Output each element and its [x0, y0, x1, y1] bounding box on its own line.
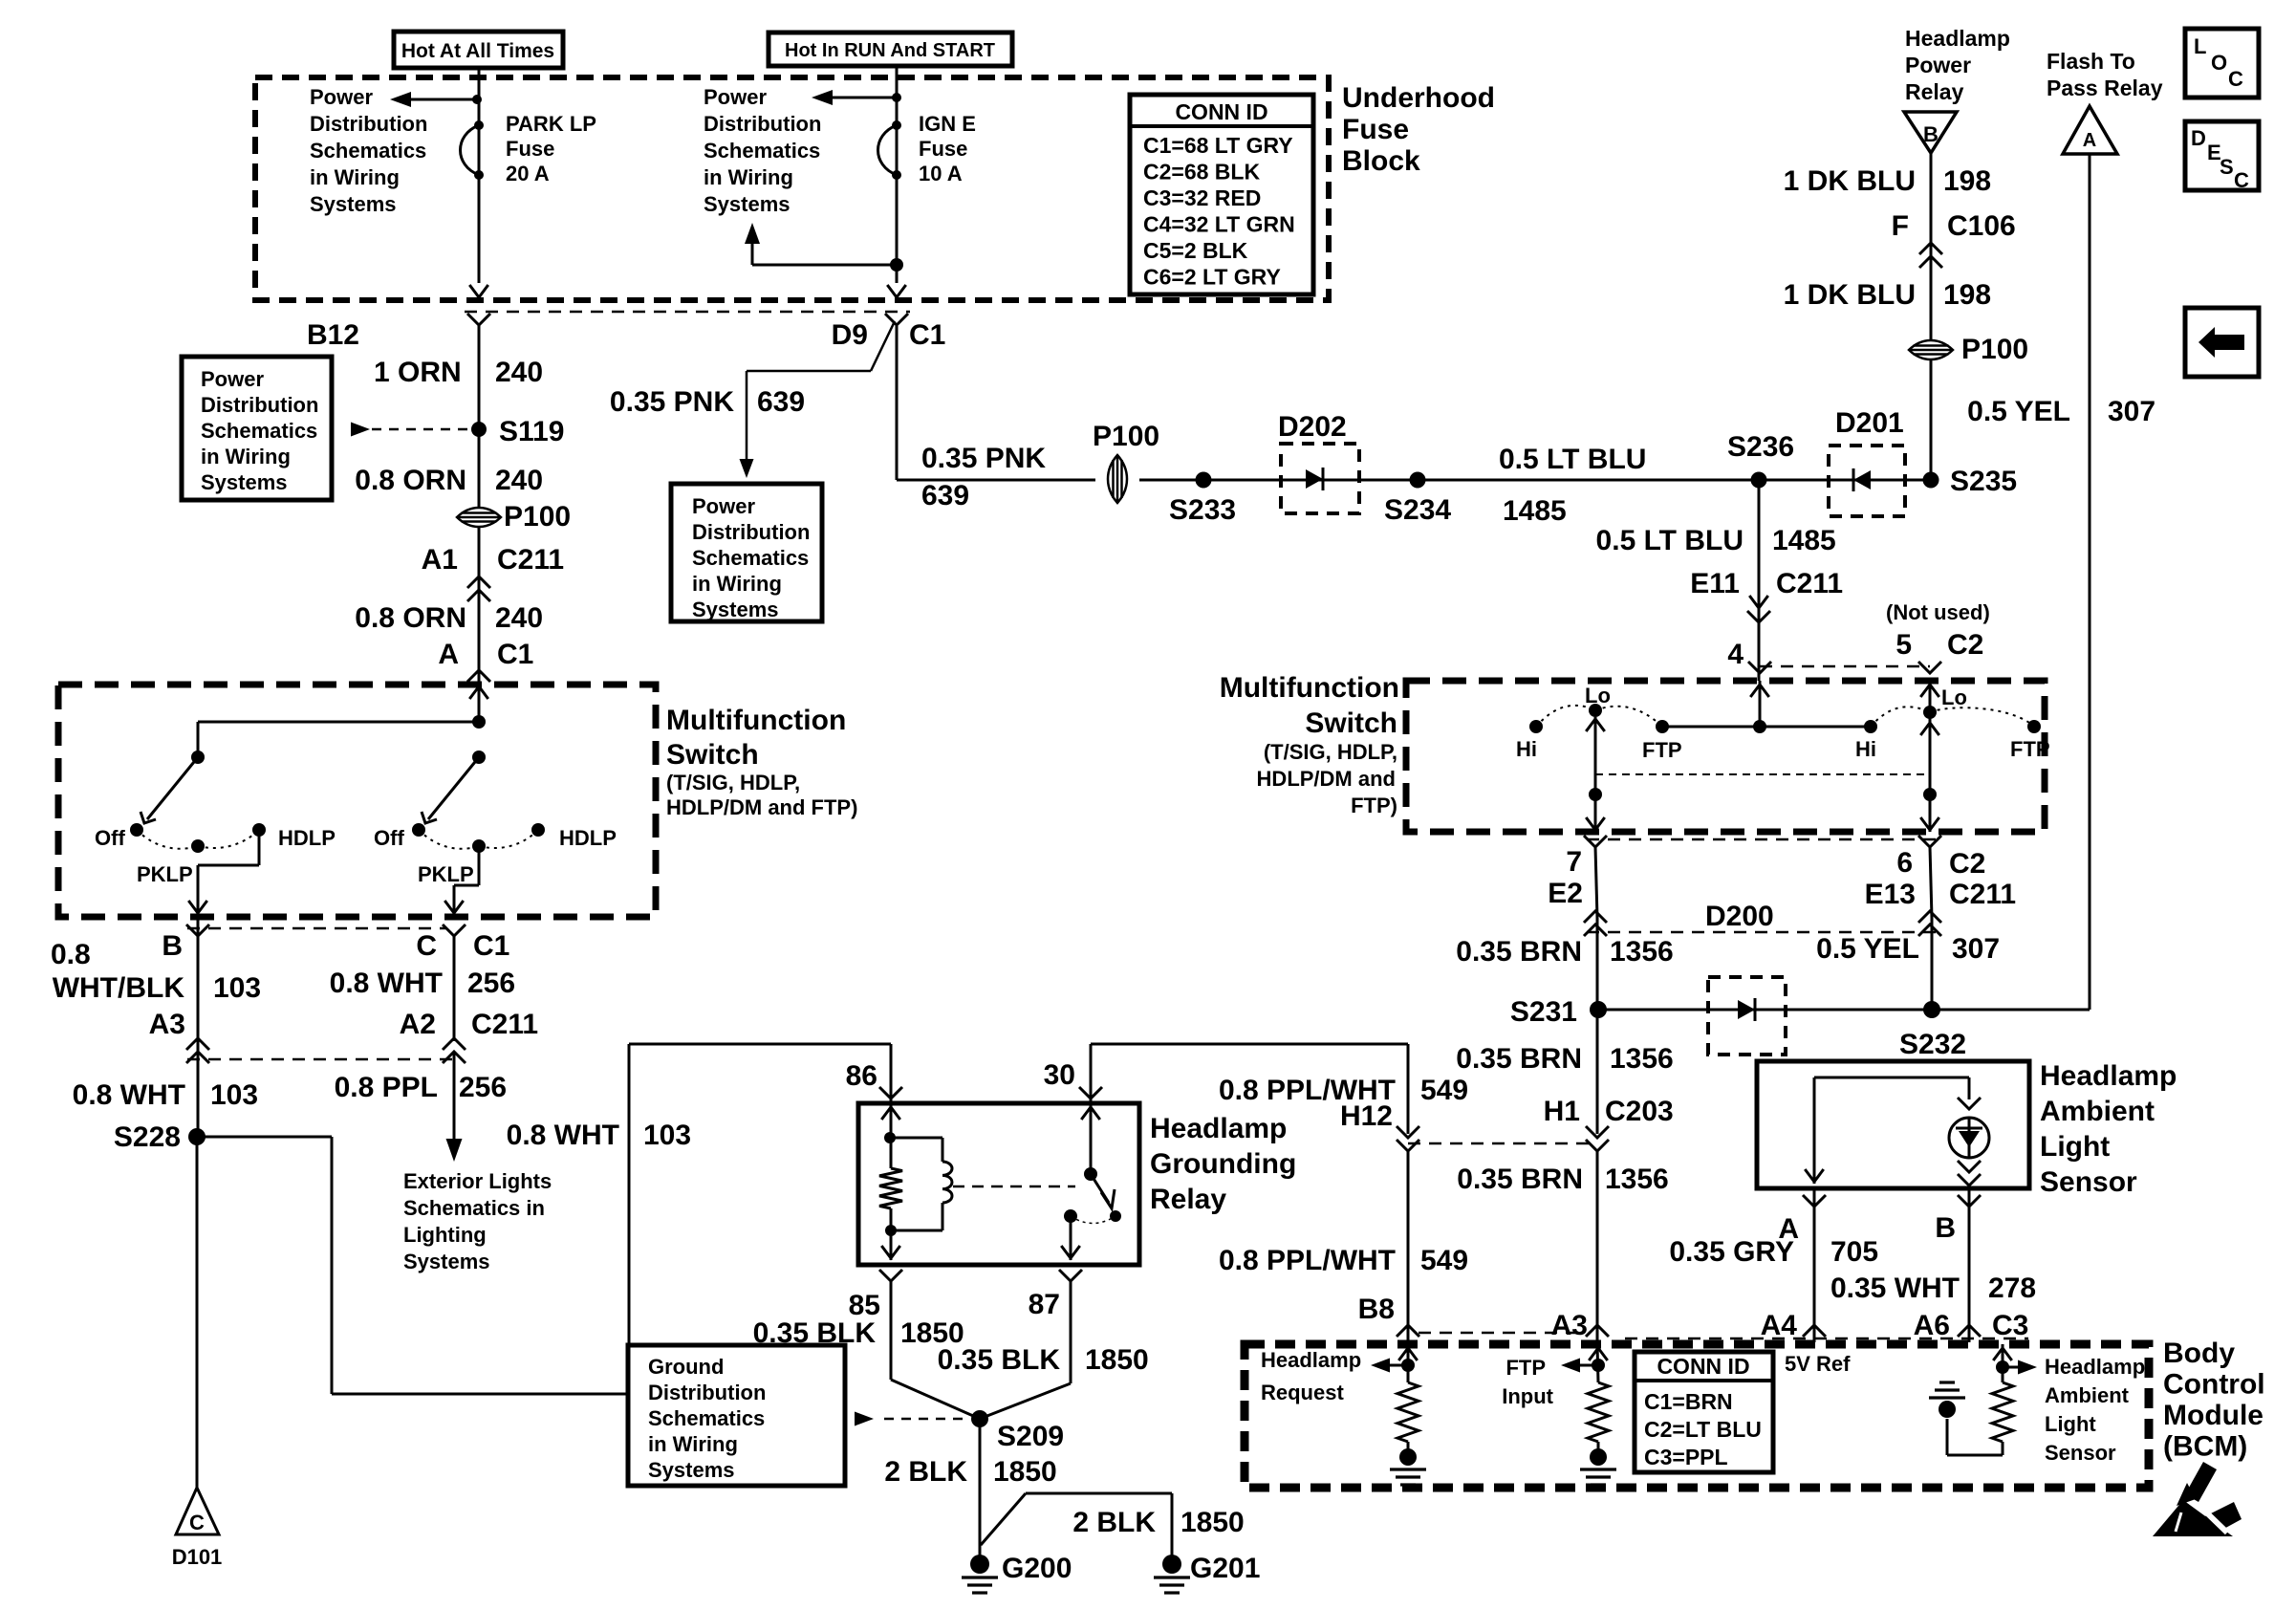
svg-text:FTP): FTP)	[1351, 794, 1397, 817]
svg-text:Systems: Systems	[692, 598, 779, 621]
svg-text:C: C	[2228, 67, 2243, 91]
svg-text:C3=PPL: C3=PPL	[1644, 1445, 1728, 1469]
svg-text:D202: D202	[1278, 411, 1347, 443]
svg-text:Input: Input	[1502, 1384, 1553, 1408]
svg-text:B8: B8	[1358, 1294, 1395, 1325]
svg-text:0.35 BRN: 0.35 BRN	[1456, 936, 1582, 968]
svg-text:Headlamp: Headlamp	[1905, 26, 2010, 51]
svg-text:Distribution: Distribution	[648, 1381, 766, 1404]
svg-text:Schematics: Schematics	[648, 1406, 765, 1430]
svg-text:C3=32 RED: C3=32 RED	[1143, 185, 1261, 210]
svg-text:Grounding: Grounding	[1150, 1148, 1296, 1180]
svg-text:P100: P100	[1093, 421, 1159, 452]
svg-text:1485: 1485	[1503, 495, 1567, 527]
svg-text:in Wiring: in Wiring	[201, 445, 291, 468]
svg-text:Hi: Hi	[1855, 737, 1876, 761]
svg-text:240: 240	[495, 602, 543, 634]
svg-text:Headlamp: Headlamp	[1261, 1348, 1361, 1372]
svg-text:S234: S234	[1384, 494, 1451, 526]
svg-text:S119: S119	[499, 416, 564, 447]
svg-text:30: 30	[1044, 1059, 1075, 1091]
svg-text:Module: Module	[2163, 1400, 2264, 1431]
svg-text:C211: C211	[471, 1009, 538, 1040]
svg-text:B12: B12	[307, 319, 359, 351]
svg-text:G201: G201	[1190, 1553, 1260, 1584]
svg-text:Hi: Hi	[1516, 737, 1537, 761]
svg-text:240: 240	[495, 465, 543, 496]
svg-text:2 BLK: 2 BLK	[1072, 1507, 1156, 1538]
svg-text:HDLP/DM and: HDLP/DM and	[1257, 767, 1396, 791]
svg-text:PKLP: PKLP	[137, 862, 193, 886]
svg-text:D101: D101	[172, 1545, 223, 1569]
svg-text:H12: H12	[1340, 1100, 1393, 1132]
svg-text:Control: Control	[2163, 1369, 2265, 1401]
svg-text:D200: D200	[1705, 901, 1774, 932]
svg-text:C: C	[416, 930, 437, 962]
svg-text:A3: A3	[1551, 1310, 1588, 1341]
svg-text:1356: 1356	[1605, 1164, 1669, 1195]
svg-text:Headlamp: Headlamp	[2040, 1060, 2177, 1092]
svg-text:307: 307	[1952, 933, 2000, 965]
svg-text:Ground: Ground	[648, 1355, 724, 1379]
svg-text:Pass Relay: Pass Relay	[2047, 76, 2163, 100]
svg-text:Lo: Lo	[1941, 685, 1967, 709]
svg-text:Switch: Switch	[1305, 707, 1397, 739]
svg-text:103: 103	[643, 1120, 691, 1151]
svg-text:A: A	[2083, 130, 2096, 151]
svg-text:Schematics: Schematics	[692, 546, 809, 570]
svg-text:0.8 WHT: 0.8 WHT	[73, 1079, 185, 1111]
svg-text:Light: Light	[2040, 1131, 2110, 1163]
svg-text:Lighting: Lighting	[403, 1223, 487, 1247]
svg-text:0.5 YEL: 0.5 YEL	[1816, 933, 1919, 965]
svg-text:S: S	[2220, 155, 2234, 179]
svg-text:256: 256	[459, 1072, 507, 1103]
svg-text:256: 256	[467, 968, 515, 999]
svg-text:Fuse: Fuse	[506, 137, 554, 161]
svg-text:0.35 PNK: 0.35 PNK	[921, 443, 1046, 474]
svg-text:5V Ref: 5V Ref	[1785, 1352, 1851, 1376]
svg-text:Distribution: Distribution	[692, 520, 810, 544]
svg-text:1850: 1850	[993, 1456, 1057, 1488]
svg-text:(BCM): (BCM)	[2163, 1431, 2247, 1463]
svg-text:C1: C1	[473, 930, 509, 962]
svg-text:C211: C211	[497, 544, 564, 576]
svg-text:D9: D9	[832, 319, 868, 351]
svg-text:1485: 1485	[1772, 525, 1836, 556]
svg-text:Lo: Lo	[1585, 684, 1611, 707]
svg-text:Distribution: Distribution	[201, 393, 318, 417]
svg-text:Off: Off	[95, 826, 125, 850]
svg-text:Headlamp: Headlamp	[1150, 1113, 1287, 1144]
svg-text:4: 4	[1727, 639, 1744, 670]
svg-text:Sensor: Sensor	[2040, 1166, 2137, 1198]
svg-text:Underhood: Underhood	[1342, 82, 1495, 114]
svg-text:C2: C2	[1949, 848, 1985, 880]
svg-text:S236: S236	[1727, 431, 1794, 463]
svg-text:0.35 PNK: 0.35 PNK	[610, 386, 734, 418]
svg-text:0.8 ORN: 0.8 ORN	[355, 465, 466, 496]
svg-text:Off: Off	[374, 826, 404, 850]
svg-text:0.5 LT BLU: 0.5 LT BLU	[1499, 444, 1646, 475]
svg-text:A2: A2	[400, 1009, 436, 1040]
svg-text:F: F	[1892, 210, 1909, 242]
svg-text:C6=2 LT GRY: C6=2 LT GRY	[1143, 265, 1281, 290]
svg-text:FTP: FTP	[1505, 1356, 1546, 1380]
svg-text:FTP: FTP	[1642, 738, 1682, 762]
svg-text:in Wiring: in Wiring	[704, 165, 793, 189]
svg-text:C211: C211	[1776, 568, 1843, 599]
svg-text:240: 240	[495, 357, 543, 388]
svg-text:Relay: Relay	[1150, 1184, 1226, 1215]
svg-text:G200: G200	[1002, 1553, 1072, 1584]
svg-text:549: 549	[1420, 1245, 1468, 1276]
svg-text:PARK LP: PARK LP	[506, 112, 596, 136]
svg-text:C106: C106	[1947, 210, 2016, 242]
svg-text:S231: S231	[1510, 996, 1577, 1028]
svg-text:Multifunction: Multifunction	[666, 705, 846, 736]
svg-text:103: 103	[213, 972, 261, 1004]
svg-text:C: C	[2234, 168, 2249, 192]
svg-text:Power: Power	[201, 367, 264, 391]
svg-text:E2: E2	[1548, 878, 1583, 909]
svg-text:Flash To: Flash To	[2047, 49, 2135, 74]
svg-text:1850: 1850	[1180, 1507, 1245, 1538]
svg-text:0.8 PPL: 0.8 PPL	[335, 1072, 438, 1103]
svg-text:Multifunction: Multifunction	[1220, 672, 1399, 704]
svg-text:C2=68 BLK: C2=68 BLK	[1143, 160, 1260, 185]
svg-text:C3: C3	[1992, 1310, 2028, 1341]
svg-text:705: 705	[1830, 1236, 1878, 1268]
svg-text:E11: E11	[1690, 568, 1740, 599]
svg-text:Hot At All Times: Hot At All Times	[401, 40, 554, 62]
svg-text:Switch: Switch	[666, 739, 759, 771]
svg-text:Sensor: Sensor	[2045, 1441, 2116, 1465]
svg-text:1 DK BLU: 1 DK BLU	[1784, 279, 1916, 311]
svg-text:P100: P100	[504, 501, 571, 533]
svg-text:D: D	[2191, 126, 2206, 150]
svg-text:Systems: Systems	[310, 192, 397, 216]
svg-text:(Not used): (Not used)	[1886, 600, 1990, 624]
svg-text:1 DK BLU: 1 DK BLU	[1784, 165, 1916, 197]
svg-text:0.8 PPL/WHT: 0.8 PPL/WHT	[1219, 1245, 1396, 1276]
svg-text:198: 198	[1943, 279, 1991, 311]
svg-text:A3: A3	[149, 1009, 185, 1040]
svg-text:Schematics: Schematics	[310, 139, 426, 163]
svg-text:C4=32 LT GRN: C4=32 LT GRN	[1143, 212, 1295, 237]
svg-text:549: 549	[1420, 1075, 1468, 1106]
svg-text:Distribution: Distribution	[704, 112, 821, 136]
svg-text:C1=BRN: C1=BRN	[1644, 1389, 1733, 1414]
svg-text:Schematics: Schematics	[201, 419, 317, 443]
svg-text:2 BLK: 2 BLK	[884, 1456, 967, 1488]
svg-text:C203: C203	[1605, 1096, 1674, 1127]
svg-text:0.8: 0.8	[51, 939, 91, 970]
svg-text:S235: S235	[1950, 466, 2017, 497]
svg-text:S209: S209	[997, 1421, 1064, 1452]
svg-text:86: 86	[846, 1060, 877, 1092]
svg-text:Fuse: Fuse	[1342, 114, 1409, 145]
svg-text:O: O	[2211, 51, 2227, 75]
svg-text:(T/SIG, HDLP,: (T/SIG, HDLP,	[666, 771, 800, 794]
svg-text:0.5 YEL: 0.5 YEL	[1967, 396, 2070, 427]
svg-text:D201: D201	[1835, 407, 1904, 439]
svg-text:Systems: Systems	[403, 1250, 490, 1273]
svg-text:278: 278	[1988, 1273, 2036, 1304]
svg-text:Power: Power	[704, 85, 767, 109]
svg-text:0.8 ORN: 0.8 ORN	[355, 602, 466, 634]
svg-text:87: 87	[1029, 1289, 1060, 1320]
svg-text:CONN ID: CONN ID	[1657, 1354, 1749, 1379]
svg-text:Light: Light	[2045, 1412, 2096, 1436]
svg-text:0.35 BRN: 0.35 BRN	[1457, 1164, 1583, 1195]
svg-text:E13: E13	[1865, 879, 1916, 910]
svg-text:in Wiring: in Wiring	[692, 572, 782, 596]
svg-text:0.35 BLK: 0.35 BLK	[938, 1344, 1061, 1376]
svg-text:7: 7	[1566, 846, 1582, 878]
svg-text:S232: S232	[1899, 1029, 1966, 1060]
svg-text:1356: 1356	[1610, 1043, 1674, 1075]
svg-text:Exterior Lights: Exterior Lights	[403, 1169, 552, 1193]
svg-text:Systems: Systems	[648, 1458, 735, 1482]
svg-text:307: 307	[2108, 396, 2155, 427]
svg-text:B: B	[162, 930, 183, 962]
svg-text:Schematics in: Schematics in	[403, 1196, 545, 1220]
svg-text:C1: C1	[909, 319, 945, 351]
svg-text:Systems: Systems	[201, 470, 288, 494]
svg-text:Relay: Relay	[1905, 79, 1964, 104]
svg-text:B: B	[1923, 122, 1939, 146]
svg-text:C5=2 BLK: C5=2 BLK	[1143, 238, 1248, 263]
svg-text:Power: Power	[310, 85, 373, 109]
svg-text:0.8 WHT: 0.8 WHT	[507, 1120, 619, 1151]
svg-text:Ambient: Ambient	[2045, 1383, 2130, 1407]
svg-text:0.5 LT BLU: 0.5 LT BLU	[1596, 525, 1744, 556]
svg-text:Hot In RUN And START: Hot In RUN And START	[785, 40, 995, 61]
svg-text:Distribution: Distribution	[310, 112, 427, 136]
svg-text:S233: S233	[1169, 494, 1236, 526]
svg-text:20 A: 20 A	[506, 162, 550, 185]
svg-text:1850: 1850	[1085, 1344, 1149, 1376]
svg-text:C1=68 LT GRY: C1=68 LT GRY	[1143, 133, 1293, 158]
svg-text:639: 639	[921, 480, 969, 511]
svg-text:0.8 WHT: 0.8 WHT	[330, 968, 443, 999]
svg-text:Power: Power	[692, 494, 755, 518]
svg-text:Headlamp: Headlamp	[2045, 1355, 2145, 1379]
svg-text:C2: C2	[1947, 629, 1983, 661]
svg-text:1356: 1356	[1610, 936, 1674, 968]
svg-text:Power: Power	[1905, 53, 1971, 77]
svg-text:in Wiring: in Wiring	[310, 165, 400, 189]
svg-text:FTP: FTP	[2010, 737, 2050, 761]
svg-text:103: 103	[210, 1079, 258, 1111]
svg-text:C1: C1	[497, 639, 533, 670]
svg-text:PKLP: PKLP	[418, 862, 474, 886]
svg-text:Request: Request	[1261, 1381, 1344, 1404]
svg-text:L: L	[2194, 34, 2206, 58]
svg-text:0.35 BRN: 0.35 BRN	[1456, 1043, 1582, 1075]
svg-text:(T/SIG, HDLP,: (T/SIG, HDLP,	[1264, 740, 1397, 764]
svg-text:A: A	[438, 639, 459, 670]
svg-text:Schematics: Schematics	[704, 139, 820, 163]
svg-text:C2=LT BLU: C2=LT BLU	[1644, 1417, 1762, 1442]
svg-text:HDLP/DM and FTP): HDLP/DM and FTP)	[666, 795, 857, 819]
svg-text:A1: A1	[422, 544, 458, 576]
svg-text:198: 198	[1943, 165, 1991, 197]
svg-text:IGN E: IGN E	[919, 112, 976, 136]
svg-text:Fuse: Fuse	[919, 137, 967, 161]
svg-text:10 A: 10 A	[919, 162, 963, 185]
svg-text:C211: C211	[1949, 879, 2016, 910]
svg-text:C: C	[189, 1511, 205, 1534]
svg-text:6: 6	[1896, 847, 1913, 879]
svg-text:A4: A4	[1761, 1310, 1798, 1341]
svg-text:S228: S228	[114, 1121, 181, 1153]
svg-text:1 ORN: 1 ORN	[374, 357, 462, 388]
svg-text:0.35 WHT: 0.35 WHT	[1830, 1273, 1960, 1304]
svg-text:0.35 GRY: 0.35 GRY	[1669, 1236, 1794, 1268]
svg-text:HDLP: HDLP	[278, 826, 336, 850]
svg-text:B: B	[1935, 1212, 1956, 1244]
svg-text:in Wiring: in Wiring	[648, 1432, 738, 1456]
svg-text:Ambient: Ambient	[2040, 1096, 2155, 1127]
svg-text:A6: A6	[1914, 1310, 1950, 1341]
svg-text:HDLP: HDLP	[559, 826, 617, 850]
svg-text:639: 639	[757, 386, 805, 418]
svg-text:CONN ID: CONN ID	[1175, 99, 1267, 124]
svg-text:Systems: Systems	[704, 192, 791, 216]
svg-text:WHT/BLK: WHT/BLK	[53, 972, 185, 1004]
svg-text:Block: Block	[1342, 145, 1420, 177]
svg-text:H1: H1	[1544, 1096, 1580, 1127]
svg-text:5: 5	[1895, 629, 1912, 661]
svg-text:P100: P100	[1961, 334, 2028, 365]
svg-text:Body: Body	[2163, 1338, 2235, 1369]
